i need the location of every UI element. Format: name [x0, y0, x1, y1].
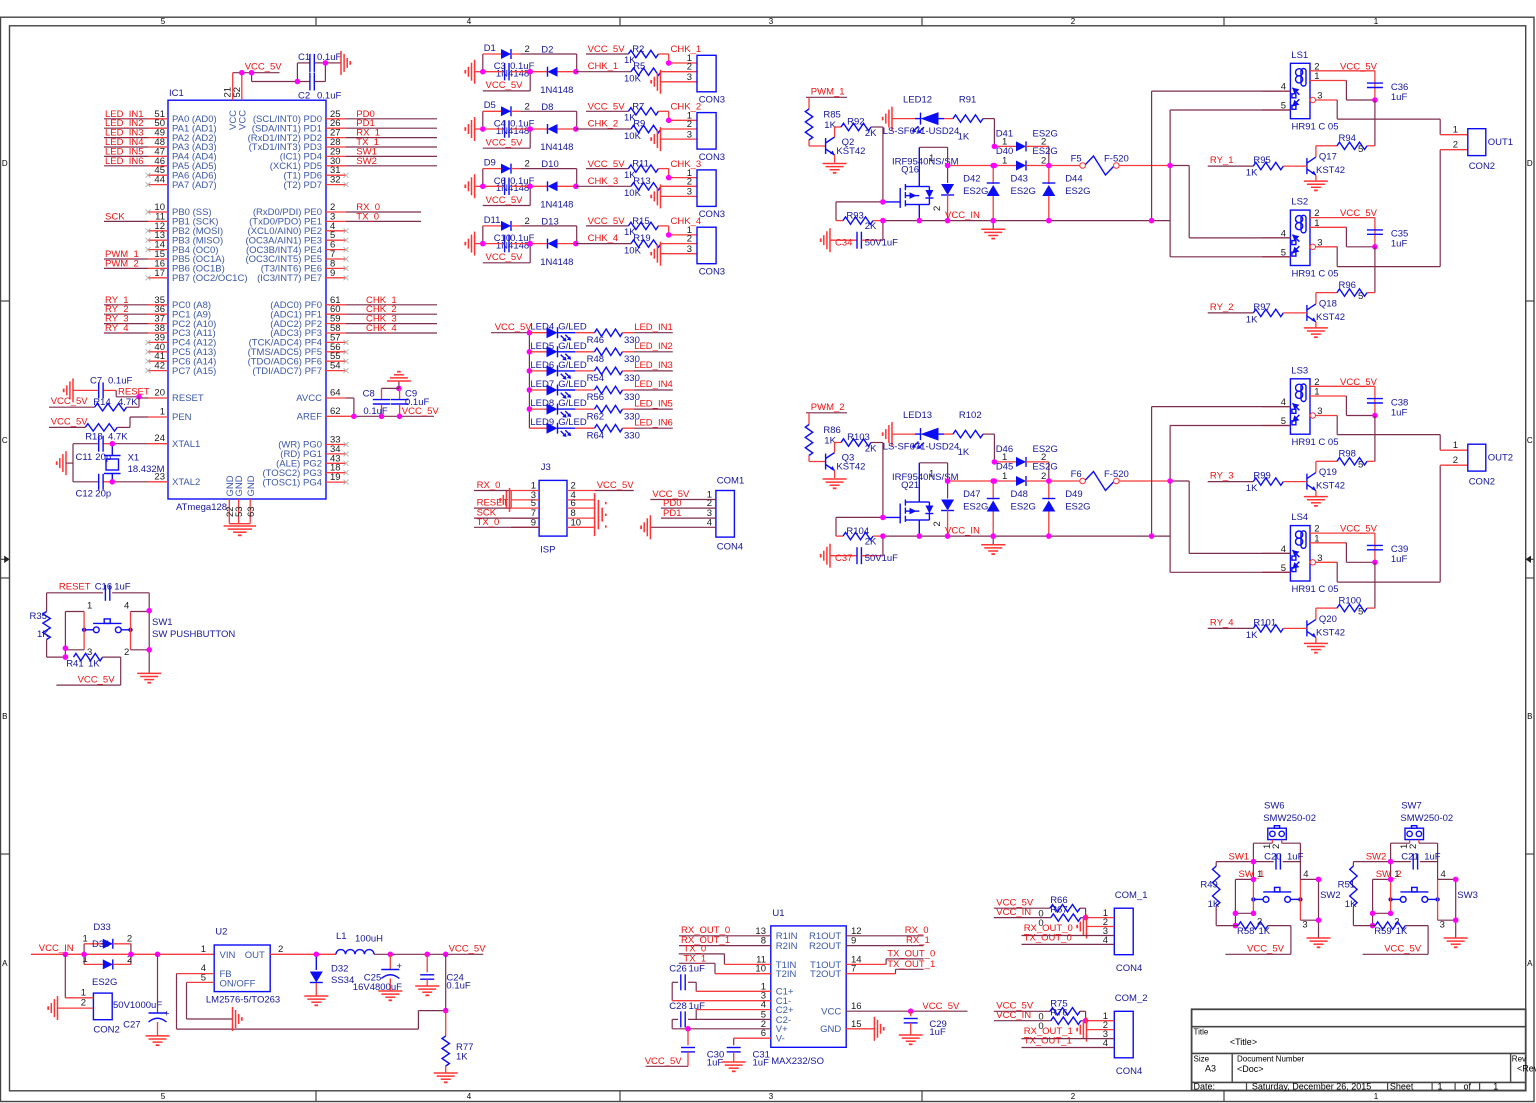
svg-text:C1: C1 — [298, 52, 310, 63]
svg-text:1K: 1K — [1396, 926, 1408, 937]
svg-text:G/LED: G/LED — [558, 341, 587, 352]
svg-text:C28: C28 — [669, 1001, 686, 1012]
svg-text:GND: GND — [234, 475, 245, 496]
wire net RX_0 from R1OUT — [846, 925, 928, 936]
optocoupler LED LED12 LS-SF671-USD24 — [883, 95, 960, 138]
svg-text:C8: C8 — [363, 389, 375, 400]
svg-text:R76: R76 — [1050, 1008, 1067, 1019]
wire net RX_OUT_0 — [1022, 923, 1115, 936]
svg-text:R101: R101 — [1253, 617, 1276, 628]
pin 46 PA5 (AD5) — [148, 156, 217, 172]
svg-text:SW2: SW2 — [1320, 890, 1341, 901]
svg-text:+: + — [164, 1009, 170, 1020]
svg-text:C12: C12 — [76, 488, 93, 499]
svg-text:V-: V- — [776, 1034, 785, 1045]
ground at crystal — [57, 444, 73, 482]
svg-text:LED13: LED13 — [903, 410, 932, 421]
connector CON2 OUT2 — [1453, 440, 1513, 487]
svg-text:D33: D33 — [93, 922, 110, 933]
connector CON2 OUT1 — [1453, 125, 1513, 172]
svg-text:XTAL1: XTAL1 — [172, 439, 200, 450]
svg-text:F-520: F-520 — [1104, 154, 1129, 165]
wire VCC_IN input rail — [31, 943, 214, 954]
wire net LED_IN2 — [634, 341, 673, 352]
wire net RX_OUT_0 — [679, 925, 771, 936]
ground at Q18 — [1304, 328, 1328, 337]
wire U2 FB feedback loop — [177, 974, 446, 1030]
svg-text:C34: C34 — [835, 238, 852, 249]
capacitor C35 1uF — [1367, 218, 1408, 250]
resistor R19 10K — [624, 233, 697, 256]
svg-text:1: 1 — [1002, 471, 1007, 482]
svg-text:3: 3 — [687, 187, 692, 198]
svg-text:3: 3 — [769, 1092, 774, 1101]
resistor R13 10K — [624, 176, 697, 199]
pin 7 (OC3C/INT5) PE5 — [245, 249, 348, 265]
svg-text:Q17: Q17 — [1319, 152, 1337, 163]
resistor R103 2K — [835, 432, 883, 454]
wire to COM_2 pin 1 — [1086, 1020, 1115, 1022]
svg-text:LS1: LS1 — [1291, 50, 1308, 61]
wire net TX_1 to T2IN — [679, 953, 771, 973]
diode D40 ES2G main row — [948, 146, 1058, 171]
svg-text:R92: R92 — [847, 116, 864, 127]
wire U2 ON/OFF to ground — [187, 982, 233, 1019]
diode D41 ES2G top — [994, 128, 1057, 165]
ground at pin3 of CON3 3 — [651, 184, 697, 208]
svg-text:KST42: KST42 — [836, 146, 865, 157]
svg-text:D49: D49 — [1065, 489, 1082, 500]
MOSFET Q16 IRF9540NS/SM — [883, 147, 959, 220]
pin 15 PB5 (OC1A) — [148, 249, 225, 265]
svg-text:CON3: CON3 — [699, 209, 725, 220]
svg-text:CHK_3: CHK_3 — [588, 176, 619, 187]
svg-text:1N4148: 1N4148 — [540, 85, 573, 96]
ground at Q19 — [1304, 497, 1328, 506]
wire net CHK_1 main row — [576, 61, 631, 72]
svg-text:CON4: CON4 — [1116, 963, 1142, 974]
svg-text:R51: R51 — [1338, 880, 1355, 891]
diode D49 ES2G vertical — [1042, 481, 1090, 536]
svg-text:VCC_5V: VCC_5V — [645, 1056, 683, 1067]
svg-text:G/LED: G/LED — [558, 398, 587, 409]
wire VCC at U1 pin 16 and capacitor C29 1uF — [846, 1001, 967, 1038]
svg-text:D48: D48 — [1011, 489, 1028, 500]
svg-text:Document Number: Document Number — [1237, 1055, 1304, 1064]
resistor R54 330 — [587, 367, 640, 384]
svg-text:VCC_5V: VCC_5V — [597, 480, 635, 491]
svg-text:R7: R7 — [632, 101, 644, 112]
svg-text:VCC_5V: VCC_5V — [495, 322, 533, 333]
wire LS4 pin 3 with contact circle — [1310, 553, 1337, 565]
pin 3 (TxD0/PDO) PE1 — [249, 211, 346, 227]
pin 25 (SCL/INT0) PD0 — [253, 109, 346, 125]
junctions CHK_3 block — [480, 184, 486, 190]
ground at Q3 emitter — [823, 479, 847, 488]
svg-text:19: 19 — [330, 472, 341, 483]
pin 41 PC6 (A14) — [146, 351, 217, 367]
pin 24 XTAL1 — [148, 433, 200, 450]
svg-text:PWM_2: PWM_2 — [811, 402, 845, 413]
svg-text:A: A — [1527, 959, 1533, 968]
capacitor C37 50V1uF — [821, 536, 898, 568]
pin 61 (ADC0) PF0 — [270, 295, 346, 311]
wire net LED_IN2 — [104, 118, 148, 129]
ground at C24 — [415, 986, 439, 995]
svg-text:RESET: RESET — [172, 393, 204, 404]
svg-text:2: 2 — [1071, 17, 1076, 26]
svg-text:D34: D34 — [92, 939, 109, 950]
transistor Q2 KST42 — [826, 127, 866, 163]
svg-text:0.1uF: 0.1uF — [446, 981, 470, 992]
svg-text:RY_4: RY_4 — [105, 323, 129, 334]
COM1 pin wires — [650, 489, 716, 528]
junctions PWM section — [880, 515, 886, 521]
svg-text:GND: GND — [246, 475, 257, 496]
svg-text:100uH: 100uH — [355, 934, 383, 945]
svg-text:17: 17 — [154, 268, 165, 279]
wires around SW2 — [1235, 869, 1318, 938]
svg-text:1K: 1K — [1259, 926, 1271, 937]
wire net RY_3 — [104, 314, 148, 325]
svg-text:5: 5 — [161, 1092, 166, 1101]
wire net PWM_1 — [806, 87, 847, 98]
resistor R101 1K and net RY_4 — [1208, 617, 1307, 641]
svg-text:1: 1 — [1493, 1081, 1498, 1091]
wires around SW1 — [65, 593, 149, 674]
pin 12 PB2 (MOSI) — [146, 221, 224, 237]
svg-text:5: 5 — [161, 17, 166, 26]
resistor R92 2K — [835, 116, 883, 138]
svg-text:CON2: CON2 — [1469, 161, 1495, 172]
svg-text:D8: D8 — [541, 102, 553, 113]
svg-text:ON/OFF: ON/OFF — [220, 978, 256, 989]
ground at SW3 — [1444, 938, 1468, 947]
capacitor C8 0.1uF — [363, 388, 399, 417]
capacitor C2 0.1uF — [298, 73, 341, 102]
pin 32 (T2) PD7 — [283, 175, 348, 191]
svg-text:1uF: 1uF — [114, 582, 131, 593]
wire VCC_5V at R58 — [1225, 926, 1291, 955]
svg-text:50V1uF: 50V1uF — [865, 553, 898, 564]
svg-text:SW1: SW1 — [152, 617, 173, 628]
inductor L1 100uH — [336, 931, 383, 954]
svg-text:(T2) PD7: (T2) PD7 — [283, 180, 322, 191]
capacitor C9 0.1uF — [391, 388, 430, 416]
wire to output connector — [1337, 150, 1468, 267]
svg-text:SW3: SW3 — [1457, 890, 1478, 901]
svg-text:R46: R46 — [587, 335, 604, 346]
resistor R49 1K — [1200, 862, 1220, 926]
svg-text:ES2G: ES2G — [963, 502, 988, 513]
pin 16 PB6 (OC1B) — [148, 258, 225, 274]
pin 2 (RxD0/PDI) PE0 — [253, 202, 346, 218]
pin 13 PB3 (MISO) — [146, 230, 224, 246]
svg-text:R2IN: R2IN — [776, 941, 798, 952]
svg-text:CON3: CON3 — [699, 266, 725, 277]
svg-text:54: 54 — [330, 361, 341, 372]
svg-text:RX_0: RX_0 — [477, 480, 501, 491]
resistor R51 1K — [1338, 862, 1358, 926]
junctions PWM section — [880, 199, 886, 205]
svg-text:R59: R59 — [1374, 926, 1391, 937]
wire LS3 pins 4/5 stubs — [1262, 397, 1290, 427]
pin 35 PC0 (A8) — [148, 295, 211, 311]
svg-text:ES2G: ES2G — [92, 977, 117, 988]
wire U2 OUT rail to VCC_5V — [270, 944, 486, 955]
svg-text:1K: 1K — [958, 447, 970, 458]
svg-text:CON3: CON3 — [699, 95, 725, 106]
pin 31 (T1) PD6 — [283, 165, 348, 181]
svg-text:G/LED: G/LED — [558, 379, 587, 390]
svg-text:PWM_1: PWM_1 — [811, 87, 845, 98]
capacitor C36 1uF — [1367, 71, 1408, 103]
svg-text:D5: D5 — [484, 100, 496, 111]
svg-text:20: 20 — [154, 388, 165, 399]
pushbutton SW3 — [1388, 879, 1477, 920]
wires SW6 header to switch — [1253, 840, 1300, 880]
svg-text:ES2G: ES2G — [1011, 502, 1036, 513]
svg-text:1: 1 — [929, 153, 934, 164]
svg-text:F6: F6 — [1071, 469, 1082, 480]
svg-text:RY_2: RY_2 — [1210, 302, 1234, 313]
svg-text:Title: Title — [1194, 1028, 1209, 1037]
svg-text:ATmega128: ATmega128 — [176, 502, 227, 513]
svg-text:OUT1: OUT1 — [1488, 137, 1513, 148]
pin 48 PA3 (AD3) — [148, 137, 217, 153]
svg-text:D11: D11 — [484, 215, 501, 226]
svg-text:1uF: 1uF — [1424, 851, 1441, 862]
capacitor C28 1uF — [669, 1001, 771, 1029]
svg-text:C: C — [2, 436, 8, 445]
svg-text:TX_OUT_1: TX_OUT_1 — [887, 959, 935, 970]
svg-text:HR91 C 05: HR91 C 05 — [1292, 584, 1339, 595]
svg-text:LED_IN3: LED_IN3 — [634, 360, 673, 371]
wire net TX_1 — [346, 137, 437, 148]
svg-text:VCC_IN: VCC_IN — [39, 943, 74, 954]
capacitor C12 20p — [73, 474, 111, 500]
svg-text:2: 2 — [932, 521, 943, 526]
diode D48 ES2G vertical — [987, 481, 1036, 536]
svg-text:1K: 1K — [456, 1052, 468, 1063]
wire net TX_0 to T1IN — [679, 944, 771, 965]
wire net RX_0 — [346, 202, 421, 213]
pin 39 PC4 (A12) — [146, 332, 217, 348]
svg-text:R2: R2 — [632, 44, 644, 55]
svg-text:1: 1 — [201, 944, 206, 955]
svg-text:KST42: KST42 — [1316, 312, 1345, 323]
svg-text:1K: 1K — [1246, 168, 1258, 179]
wire net RX_OUT_1 — [679, 935, 771, 946]
connector CON3 (CHK_2) — [687, 111, 725, 163]
svg-text:VCC_IN: VCC_IN — [996, 907, 1031, 918]
svg-text:LED_IN5: LED_IN5 — [634, 398, 673, 409]
svg-text:L1: L1 — [336, 931, 347, 942]
transistor Q19 KST42 — [1307, 461, 1345, 496]
svg-text:D32: D32 — [331, 964, 348, 975]
pin 1 C1+ — [761, 981, 794, 997]
connector SW6 SMW250-02 — [1262, 800, 1316, 849]
svg-text:1K: 1K — [958, 132, 970, 143]
wire gate drive — [882, 127, 884, 202]
wire net SCK — [104, 211, 148, 222]
svg-text:1: 1 — [83, 933, 88, 944]
svg-text:R97: R97 — [1253, 302, 1270, 313]
wire net SW1 — [1216, 851, 1253, 862]
diode D47 ES2G vertical — [941, 463, 988, 536]
ground at COM1 pin 4 — [641, 515, 650, 539]
wires SW7 header to switch — [1391, 840, 1438, 880]
pin 7 T2OUT — [810, 964, 856, 980]
svg-text:R11: R11 — [632, 159, 649, 170]
svg-text:R64: R64 — [587, 430, 604, 441]
pin 19 (TOSC1) PG4 — [263, 472, 349, 488]
svg-text:C: C — [1527, 436, 1533, 445]
wire VCC_5V feeding LED array — [491, 322, 532, 428]
pin 12 R1OUT — [809, 926, 862, 942]
svg-text:J3: J3 — [541, 462, 551, 473]
svg-text:VCC_5V: VCC_5V — [1340, 524, 1378, 535]
svg-text:C6: C6 — [494, 176, 506, 187]
svg-text:1: 1 — [1257, 869, 1262, 880]
svg-text:C2: C2 — [298, 90, 310, 101]
ground at pin3 of CON3 1 — [651, 70, 697, 94]
svg-text:1K: 1K — [1246, 630, 1258, 641]
wire VCC_5V at LS1 pin 2 — [1310, 61, 1378, 72]
svg-text:F-520: F-520 — [1104, 469, 1129, 480]
svg-text:VCC_5V: VCC_5V — [1340, 377, 1378, 388]
svg-text:64: 64 — [330, 388, 341, 399]
LED LED4 G/LED — [529, 322, 594, 342]
svg-text:1K: 1K — [1208, 899, 1220, 910]
svg-text:X1: X1 — [128, 453, 140, 464]
wire to output connector — [1337, 416, 1468, 451]
junctions CHK_2 block — [480, 126, 486, 132]
wire net LED_IN6 — [104, 156, 148, 167]
ground at U2 ON/OFF — [233, 1007, 242, 1031]
svg-text:CHK_4: CHK_4 — [588, 233, 619, 244]
ground at Q17 — [1304, 181, 1328, 190]
svg-text:4: 4 — [124, 601, 129, 612]
svg-text:R67: R67 — [1050, 905, 1067, 916]
wire VCC_5V at R59 — [1363, 926, 1429, 955]
wire XTAL2 — [103, 481, 148, 483]
wire net CHK_3 main row — [576, 176, 631, 187]
junction dots VCC_5V — [239, 70, 245, 76]
wire net LED_IN5 — [104, 146, 148, 157]
wire net TX_OUT_1 from T2OUT — [846, 959, 935, 974]
svg-text:SW1: SW1 — [1229, 851, 1250, 862]
LED LED8 G/LED — [529, 398, 594, 418]
svg-text:TX_0: TX_0 — [356, 211, 379, 222]
ground on VCC_IN bus — [981, 536, 1005, 554]
svg-text:10K: 10K — [624, 74, 642, 85]
resistor R7 1K pull-up — [586, 101, 701, 123]
pin 37 PC2 (A10) — [148, 314, 216, 330]
svg-text:ISP: ISP — [540, 545, 555, 556]
svg-text:LED6: LED6 — [530, 360, 554, 371]
IC IC1 ATmega128 body — [168, 88, 326, 513]
ground at U1 GND pin 15 — [846, 1017, 884, 1041]
svg-text:20p: 20p — [95, 488, 111, 499]
pin 8 R2IN — [761, 936, 798, 952]
pin 1 PEN — [148, 407, 192, 424]
svg-text:<RevCode: <RevCode — [1517, 1064, 1536, 1074]
svg-text:1K: 1K — [624, 55, 636, 66]
LED LED7 G/LED — [529, 379, 594, 399]
MOSFET Q21 IRF9540NS/SM — [883, 463, 959, 536]
svg-text:LED_IN1: LED_IN1 — [634, 322, 673, 333]
svg-text:2: 2 — [278, 944, 283, 955]
pin 6 (OC3B/INT4) PE4 — [246, 240, 349, 256]
svg-text:3: 3 — [1317, 406, 1322, 417]
capacitor C25 16V4800uF electrolytic — [353, 952, 403, 993]
svg-text:2K: 2K — [865, 443, 877, 454]
wire LS4 pins 4/5 stubs — [1262, 544, 1290, 574]
wire net TX_OUT_0 from T1OUT — [846, 948, 935, 964]
svg-text:1: 1 — [87, 601, 92, 612]
wire VCC_IN bus — [883, 210, 1152, 221]
wire net LED_IN6 — [634, 417, 673, 428]
svg-text:D2: D2 — [541, 45, 553, 56]
pin 11 PB1 (SCK) — [148, 211, 218, 227]
svg-text:R99: R99 — [1253, 471, 1270, 482]
svg-text:C26: C26 — [669, 963, 686, 974]
svg-text:VCC_5V: VCC_5V — [51, 416, 89, 427]
pin 17 PB7 (OC2/OC1C) — [146, 268, 248, 284]
capacitor C11 20p — [73, 436, 111, 463]
svg-text:LS-SF671-USD24: LS-SF671-USD24 — [883, 126, 960, 137]
svg-text:R13: R13 — [633, 176, 650, 187]
wire LS4 pin 1 — [1310, 533, 1375, 562]
ground at Q2 emitter — [823, 164, 847, 173]
svg-text:RY_1: RY_1 — [1210, 155, 1234, 166]
pin 23 XTAL2 — [148, 471, 200, 488]
svg-text:AREF: AREF — [297, 412, 323, 423]
svg-text:ES2G: ES2G — [1011, 186, 1036, 197]
svg-text:LED9: LED9 — [530, 417, 554, 428]
wire net CHK_4 — [346, 323, 437, 334]
svg-text:R94: R94 — [1339, 133, 1356, 144]
svg-text:<Doc>: <Doc> — [1237, 1064, 1264, 1074]
svg-text:R56: R56 — [587, 392, 604, 403]
wires around SW3 — [1373, 869, 1456, 938]
svg-text:(IC3/INT7) PE7: (IC3/INT7) PE7 — [257, 273, 322, 284]
resistor R85 1K — [805, 97, 841, 146]
wire net LED_IN5 — [634, 398, 673, 409]
resistor R59 1K — [1353, 922, 1428, 937]
junctions CHK_4 block — [480, 241, 486, 247]
svg-text:0.1uF: 0.1uF — [108, 376, 132, 387]
svg-text:C37: C37 — [835, 553, 852, 564]
svg-text:C11: C11 — [76, 452, 93, 463]
svg-text:D9: D9 — [484, 158, 496, 169]
svg-text:COM_1: COM_1 — [1115, 890, 1148, 901]
svg-text:1: 1 — [1394, 869, 1399, 880]
pin 43 (ALE) PG2 — [276, 453, 348, 469]
wire net LED_IN1 — [104, 109, 148, 120]
svg-text:RY_3: RY_3 — [1210, 471, 1234, 482]
svg-text:TX_OUT_0: TX_OUT_0 — [887, 948, 935, 959]
pin 53 GND — [234, 475, 245, 523]
svg-text:0.1uF: 0.1uF — [317, 52, 341, 63]
ground left of CHK_1 block — [465, 60, 483, 84]
capacitor C4 0.1uF — [483, 119, 535, 138]
svg-text:ES2G: ES2G — [1065, 502, 1090, 513]
diode D42 ES2G vertical — [941, 147, 988, 220]
pin 4 C2+ — [761, 1000, 794, 1016]
pin 5 C2- — [761, 1009, 791, 1025]
